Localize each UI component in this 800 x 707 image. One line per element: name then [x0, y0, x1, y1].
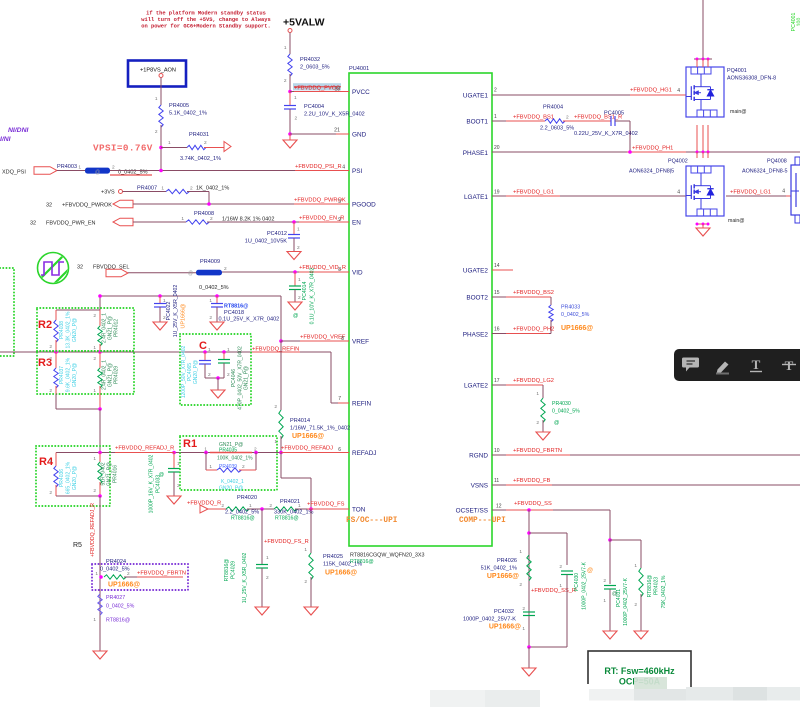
resistor PR4005 — [159, 105, 163, 127]
svg-text:PC4030: PC4030 — [574, 573, 580, 591]
wire to PR4025 — [310, 509, 312, 553]
svg-text:PVCC: PVCC — [352, 89, 370, 96]
svg-text:9.6K_0402_1%: 9.6K_0402_1% — [66, 357, 72, 392]
svg-text:PR4004: PR4004 — [543, 105, 563, 111]
svg-text:+FBVDDQ_BS2: +FBVDDQ_BS2 — [513, 290, 554, 296]
svg-text:PR4036: PR4036 — [59, 469, 65, 487]
svg-text:UGATE1: UGATE1 — [463, 93, 489, 100]
svg-text:4: 4 — [782, 189, 785, 195]
svg-text:1: 1 — [161, 186, 164, 192]
svg-text:LGATE1: LGATE1 — [464, 194, 488, 201]
svg-text:GN20_P@: GN20_P@ — [193, 360, 199, 384]
svg-text:@: @ — [554, 420, 559, 426]
svg-text:1: 1 — [304, 547, 307, 553]
svg-text:1: 1 — [168, 140, 171, 146]
svg-text:+FBVDDQ_REFADJ: +FBVDDQ_REFADJ — [281, 446, 333, 452]
svg-text:RT8816@: RT8816@ — [350, 559, 374, 565]
svg-text:1: 1 — [494, 114, 497, 120]
svg-text:5.1K_0402_1%: 5.1K_0402_1% — [169, 111, 207, 117]
svg-text:2: 2 — [559, 564, 562, 570]
svg-text:1K_0402_1%: 1K_0402_1% — [196, 186, 229, 192]
svg-text:2: 2 — [304, 579, 307, 585]
svg-text:PC4046: PC4046 — [231, 369, 237, 387]
svg-text:1U_0402_10V5K: 1U_0402_10V5K — [245, 239, 288, 245]
svg-text:3: 3 — [338, 199, 341, 205]
group R3 — [37, 351, 134, 394]
wire VREF rail — [281, 340, 349, 342]
ground below PC4031 — [603, 631, 617, 639]
svg-text:PR4016: PR4016 — [113, 465, 119, 483]
svg-text:PC4012: PC4012 — [267, 231, 287, 237]
svg-text:+FBVDDQ_FS: +FBVDDQ_FS — [307, 502, 345, 508]
svg-text:2: 2 — [634, 602, 637, 608]
wire port to PR4003 — [57, 170, 85, 172]
svg-text:1: 1 — [181, 216, 184, 222]
capacitor PC4014 — [294, 272, 296, 286]
svg-text:PR4027: PR4027 — [106, 595, 125, 601]
svg-text:T: T — [785, 358, 794, 373]
watermark blur bottom right — [692, 670, 800, 707]
svg-text:if the platform Modern standby: if the platform Modern standby status — [146, 11, 266, 17]
capacitor PC4004 — [289, 92, 291, 106]
svg-text:UP1666@: UP1666@ — [108, 582, 140, 589]
resistor PR4008 — [186, 220, 209, 224]
svg-text:PR4020: PR4020 — [237, 495, 257, 501]
ground below PC4029 — [255, 607, 269, 615]
transistor PQ4001 — [702, 0, 704, 59]
svg-text:0_0402_5%: 0_0402_5% — [100, 567, 130, 573]
svg-text:2: 2 — [254, 447, 257, 453]
svg-text:1000P_0402_25V7-K: 1000P_0402_25V7-K — [463, 617, 516, 623]
svg-text:1U_25V_K_X5R_0402: 1U_25V_K_X5R_0402 — [173, 285, 179, 338]
svg-text:1: 1 — [536, 391, 539, 397]
svg-text:1: 1 — [95, 571, 98, 577]
wire to PR4009 — [128, 272, 196, 274]
svg-text:2: 2 — [522, 606, 525, 612]
svg-text:R2: R2 — [38, 319, 52, 331]
svg-text:+FBVDDQ_FS_R: +FBVDDQ_FS_R — [264, 539, 309, 545]
svg-text:+FBVDDQ_FBRTN: +FBVDDQ_FBRTN — [137, 571, 186, 577]
wire PR4005 to PSI rail — [160, 125, 162, 171]
svg-text:2: 2 — [519, 582, 522, 588]
resistor PR4035 — [204, 451, 208, 455]
wire vref top rail — [100, 295, 281, 297]
svg-text:+3VS: +3VS — [101, 190, 115, 196]
svg-text:1: 1 — [78, 165, 81, 171]
wire PR4020 to PR4021 — [247, 508, 274, 510]
svg-text:+FBVDDQ_REFADJ_R: +FBVDDQ_REFADJ_R — [115, 446, 174, 452]
resistor PR4016 — [99, 453, 101, 463]
svg-text:1: 1 — [522, 626, 525, 632]
svg-text:1: 1 — [284, 45, 287, 51]
svg-text:PC4032: PC4032 — [494, 609, 514, 615]
svg-text:14: 14 — [494, 263, 500, 269]
svg-text:GN20_P@: GN20_P@ — [72, 363, 78, 387]
svg-text:RT: Fsw=460kHz: RT: Fsw=460kHz — [604, 666, 675, 676]
svg-text:PC4014: PC4014 — [302, 282, 308, 301]
svg-text:GND: GND — [352, 132, 367, 139]
capacitor PC4065 — [203, 350, 207, 354]
svg-text:BOOT1: BOOT1 — [466, 119, 488, 126]
wire BS1_R — [563, 120, 611, 122]
resistor PR4009 selected — [196, 270, 222, 276]
ground below PC4004 — [289, 134, 291, 140]
svg-text:1: 1 — [249, 503, 252, 509]
svg-text:2: 2 — [603, 578, 606, 584]
svg-text:1/16W_71.5K_1%_0402: 1/16W_71.5K_1%_0402 — [290, 426, 350, 432]
svg-text:2: 2 — [221, 503, 224, 509]
svg-text:GN21_P@: GN21_P@ — [244, 366, 250, 390]
svg-text:+FBVDDQ_PH2: +FBVDDQ_PH2 — [513, 327, 554, 333]
svg-text:10: 10 — [494, 448, 500, 454]
svg-text:+FBVDDQ_R: +FBVDDQ_R — [187, 501, 221, 507]
svg-text:6: 6 — [338, 447, 341, 453]
svg-text:2: 2 — [494, 88, 497, 94]
svg-text:PC4029: PC4029 — [231, 561, 237, 579]
svg-text:XDQ_PSI: XDQ_PSI — [2, 170, 26, 176]
svg-text:PR4007: PR4007 — [137, 186, 157, 192]
svg-text:RT8816@: RT8816@ — [275, 516, 299, 522]
svg-text:2: 2 — [49, 344, 52, 350]
IC PU4001 RT8816 body — [349, 73, 492, 546]
wire PQ4002 source to ground — [697, 223, 708, 225]
svg-text:PC4022: PC4022 — [166, 302, 172, 321]
svg-text:PR4030: PR4030 — [552, 401, 571, 407]
svg-text:UP1666@: UP1666@ — [292, 433, 324, 440]
svg-text:RT8816@: RT8816@ — [106, 618, 130, 624]
svg-text:2_0603_5%: 2_0603_5% — [300, 65, 330, 71]
svg-text:@: @ — [293, 313, 298, 319]
svg-text:AONS36308_DFN-8: AONS36308_DFN-8 — [727, 76, 776, 82]
svg-text:1: 1 — [227, 347, 230, 353]
svg-text:1000P_0402_25V7-K: 1000P_0402_25V7-K — [623, 577, 629, 625]
svg-text:0.22U_25V_K_X7R_0402: 0.22U_25V_K_X7R_0402 — [574, 131, 638, 137]
svg-text:2.2U_10V_K_X5R_0402: 2.2U_10V_K_X5R_0402 — [304, 112, 365, 118]
svg-text:1: 1 — [297, 227, 300, 233]
svg-text:2: 2 — [242, 464, 245, 470]
wire R2 top — [56, 309, 100, 311]
svg-text:BOOT2: BOOT2 — [466, 295, 488, 302]
svg-text:2: 2 — [274, 404, 277, 410]
pin PVCC net +FBVDDQ_PVCC — [288, 90, 292, 94]
svg-text:2: 2 — [204, 140, 207, 146]
svg-text:PR4031: PR4031 — [189, 132, 209, 138]
wire PR4032 to PVCC rail — [289, 74, 291, 92]
svg-text:0_0402_5%: 0_0402_5% — [199, 285, 229, 291]
wire R3 bottom — [55, 394, 57, 409]
svg-text:+FBVDDQ_LG1: +FBVDDQ_LG1 — [513, 190, 554, 196]
resistor PR4029 — [99, 352, 101, 368]
pin GND 21 — [288, 132, 292, 136]
svg-text:PC4004: PC4004 — [304, 104, 324, 110]
ground below C — [211, 390, 225, 398]
node VPSI junction — [159, 146, 163, 150]
svg-text:PQ4002: PQ4002 — [668, 159, 688, 165]
svg-text:PSI: PSI — [352, 168, 363, 175]
svg-text:2.2_0603_5%: 2.2_0603_5% — [540, 126, 574, 132]
ground bottom left — [93, 651, 107, 659]
svg-text:NI/DNI: NI/DNI — [8, 127, 29, 134]
svg-text:@: @ — [188, 271, 193, 277]
resistor PR4038 — [55, 310, 57, 320]
svg-text:+FBVDDQ_LG2: +FBVDDQ_LG2 — [513, 378, 554, 384]
svg-text:+FBVDDQ_SS: +FBVDDQ_SS — [514, 501, 552, 507]
svg-text:GN20_P@: GN20_P@ — [219, 486, 243, 492]
svg-text:11: 11 — [494, 478, 499, 484]
svg-text:0_0402_5%: 0_0402_5% — [561, 312, 590, 318]
resistor PR4032 — [288, 54, 292, 76]
wire PR4031 to arrow — [161, 147, 187, 149]
svg-text:+FBVDDQ_SS_R: +FBVDDQ_SS_R — [531, 588, 576, 594]
svg-text:PR4033: PR4033 — [561, 305, 580, 311]
svg-text:UP1666@: UP1666@ — [487, 573, 519, 580]
svg-text:OCSET/SS: OCSET/SS — [456, 508, 488, 515]
svg-text:PR4012: PR4012 — [114, 319, 120, 337]
svg-text:2: 2 — [93, 313, 96, 319]
svg-text:2: 2 — [190, 186, 193, 192]
svg-text:+FBVDDQ_PSI_R: +FBVDDQ_PSI_R — [295, 164, 342, 170]
svg-text:2: 2 — [155, 129, 158, 135]
wire PSI rail — [110, 170, 349, 172]
svg-text:+FBVDDQ_HG1: +FBVDDQ_HG1 — [630, 88, 672, 94]
svg-text:0.1U_10V_K_X7R_0402: 0.1U_10V_K_X7R_0402 — [310, 267, 316, 324]
svg-text:GN20_P@: GN20_P@ — [72, 466, 78, 490]
group R2 — [37, 308, 134, 351]
wire SS network — [527, 508, 531, 512]
svg-text:2: 2 — [227, 372, 230, 378]
capacitor PC4031 — [609, 540, 611, 584]
svg-text:4: 4 — [677, 88, 680, 94]
svg-text:PR4014: PR4014 — [290, 418, 310, 424]
note box RT Fsw — [588, 651, 691, 701]
svg-text:UP1666@: UP1666@ — [489, 624, 521, 631]
wire R4 bottom — [56, 495, 100, 497]
group R4 — [36, 446, 110, 506]
resistor PR4024 — [99, 575, 103, 579]
svg-text:19: 19 — [494, 190, 500, 196]
capacitor PC4033 — [173, 453, 175, 469]
wire C bottom — [205, 377, 224, 379]
svg-text:0_0402_5%: 0_0402_5% — [106, 604, 135, 610]
svg-text:R1: R1 — [183, 438, 197, 450]
svg-text:UGATE2: UGATE2 — [463, 268, 489, 275]
wire +5VALW to PR4032 — [289, 33, 291, 55]
svg-text:PR4023: PR4023 — [654, 577, 660, 595]
svg-text:FS/OC---UPI: FS/OC---UPI — [346, 517, 398, 525]
svg-text:4: 4 — [342, 165, 345, 171]
resistor PR4039 — [205, 453, 207, 471]
resistor PR4003 selected — [85, 168, 110, 174]
wire SS bottom — [529, 646, 567, 648]
svg-text:665_0402_1%: 665_0402_1% — [66, 461, 72, 494]
svg-text:2: 2 — [298, 295, 301, 301]
svg-text:RT8816@: RT8816@ — [647, 575, 653, 598]
svg-text:1: 1 — [208, 347, 211, 353]
svg-text:VPSI=0.76V: VPSI=0.76V — [93, 143, 153, 154]
svg-text:TON: TON — [352, 507, 366, 514]
svg-text:2: 2 — [49, 490, 52, 496]
svg-text:2: 2 — [93, 356, 96, 362]
capacitor PC4022 — [159, 296, 161, 303]
svg-text:1: 1 — [49, 458, 52, 464]
resistor PR4012 — [99, 310, 101, 326]
ground below PC4032 — [522, 668, 536, 676]
svg-text:PHASE2: PHASE2 — [463, 332, 489, 339]
svg-text:PR4024: PR4024 — [106, 559, 126, 565]
svg-text:2: 2 — [269, 503, 272, 509]
svg-text:RGND: RGND — [469, 453, 488, 460]
wire down to REFADJ rail — [99, 409, 101, 453]
ground below PC4018 — [210, 322, 224, 330]
wire PR4007 to PWROK rail — [187, 191, 209, 193]
wire EN rail — [207, 221, 349, 223]
svg-text:UP1666@: UP1666@ — [561, 325, 593, 332]
ground below PQ4002 — [696, 228, 710, 236]
svg-text:1: 1 — [294, 95, 297, 101]
svg-text:UP1666@: UP1666@ — [181, 304, 187, 329]
svg-text:21: 21 — [334, 128, 340, 134]
capacitor PC4012 — [293, 222, 295, 235]
svg-text:1: 1 — [519, 549, 522, 555]
svg-text:17: 17 — [494, 378, 500, 384]
wire vertical to VREF — [280, 296, 282, 341]
svg-text:PR4032: PR4032 — [300, 57, 320, 63]
node rail junctions — [98, 294, 102, 298]
svg-text:PR4009: PR4009 — [200, 259, 220, 265]
svg-text:main@: main@ — [728, 218, 745, 224]
svg-text:+5VALW: +5VALW — [283, 17, 325, 29]
svg-text:1: 1 — [603, 598, 606, 604]
svg-text:2: 2 — [284, 78, 287, 84]
toolbar icon comment — [682, 358, 699, 372]
svg-text:0.1U_25V_K_X7R_0402: 0.1U_25V_K_X7R_0402 — [219, 317, 280, 323]
svg-text:2: 2 — [210, 216, 213, 222]
wire LG1 to PQ4008 — [726, 195, 791, 197]
svg-text:@: @ — [612, 591, 617, 597]
svg-text:2: 2 — [49, 356, 52, 362]
svg-text:100K_0402_1%: 100K_0402_1% — [217, 456, 253, 462]
svg-text:2: 2 — [112, 165, 115, 171]
svg-text:1: 1 — [155, 96, 158, 102]
svg-text:1: 1 — [204, 447, 207, 453]
svg-text:4: 4 — [677, 190, 680, 196]
svg-text:PQ4001: PQ4001 — [727, 68, 747, 74]
icon waveform select — [36, 248, 70, 286]
svg-text:+1P8VS_AON: +1P8VS_AON — [140, 68, 176, 74]
wire to PR4008 — [133, 221, 186, 223]
svg-text:2: 2 — [209, 315, 212, 321]
wire FS_R branch — [261, 509, 263, 564]
svg-text:75K_0402_1%: 75K_0402_1% — [661, 575, 667, 608]
annotation toolbar overlay — [674, 349, 800, 381]
resistor PR4037 — [55, 352, 57, 368]
svg-text:32: 32 — [30, 221, 36, 227]
svg-text:2: 2 — [93, 488, 96, 494]
wire REFIN to pin — [330, 352, 332, 403]
svg-text:REFIN: REFIN — [352, 401, 372, 408]
svg-text:1U_25V_K_X5R_0402: 1U_25V_K_X5R_0402 — [242, 552, 248, 603]
wire REFADJ_R vertical — [99, 496, 101, 651]
svg-text:1: 1 — [634, 563, 637, 569]
group C — [180, 334, 251, 405]
wire PC4005 to PHASE1 — [615, 120, 630, 122]
svg-text:PR4025: PR4025 — [323, 554, 343, 560]
group R1 — [180, 436, 277, 490]
resistor PR4007 — [166, 189, 189, 193]
wire PQ4001 source to PHASE1 — [696, 125, 698, 152]
svg-text:+FBVDDQ_PH1: +FBVDDQ_PH1 — [632, 146, 673, 152]
resistor PR4030 — [542, 385, 544, 398]
svg-text:EN: EN — [352, 220, 361, 227]
group UP1666 FBRTN — [92, 564, 188, 590]
wire to PR4031 — [161, 147, 177, 149]
svg-text:1: 1 — [93, 456, 96, 462]
svg-text:32: 32 — [77, 265, 83, 271]
svg-text:9: 9 — [338, 217, 341, 223]
svg-text:FBVDDQ_PWR_EN: FBVDDQ_PWR_EN — [46, 221, 96, 227]
svg-text:1: 1 — [93, 388, 96, 394]
svg-text:2: 2 — [536, 420, 539, 426]
svg-text:PGOOD: PGOOD — [352, 202, 376, 209]
svg-text:PR4037: PR4037 — [59, 366, 65, 384]
svg-text:2: 2 — [266, 575, 269, 581]
svg-text:+FBVDDQ_VREF: +FBVDDQ_VREF — [300, 335, 346, 341]
svg-text:8: 8 — [338, 267, 341, 273]
power box +1P8VS_AON — [128, 61, 186, 87]
resistor PR4036 — [55, 453, 57, 467]
svg-text:2: 2 — [49, 388, 52, 394]
svg-text:PR4038: PR4038 — [59, 321, 65, 339]
svg-text:PC4005: PC4005 — [604, 111, 624, 117]
svg-text:PR4029: PR4029 — [114, 366, 120, 384]
svg-text:R5: R5 — [73, 542, 82, 549]
svg-text:100: 100 — [797, 18, 800, 27]
svg-text:will turn off the +5VS, change: will turn off the +5VS, change to Always — [141, 17, 270, 23]
svg-text:2: 2 — [297, 245, 300, 251]
svg-text:8: 8 — [341, 336, 344, 342]
svg-text:1: 1 — [266, 555, 269, 561]
svg-text:7: 7 — [338, 396, 341, 402]
svg-text:15: 15 — [494, 290, 500, 296]
svg-text:PHASE1: PHASE1 — [463, 150, 489, 157]
svg-text:LGATE2: LGATE2 — [464, 383, 488, 390]
wire REFADJ rail — [56, 452, 349, 454]
svg-text:GN20_P@: GN20_P@ — [72, 318, 78, 342]
wire VID rail — [222, 271, 349, 273]
svg-text:+FBVDDQ_FBRTN: +FBVDDQ_FBRTN — [513, 448, 562, 454]
svg-text:16: 16 — [494, 327, 500, 333]
svg-text:+FBVDDQ_LG1: +FBVDDQ_LG1 — [730, 190, 771, 196]
svg-text:AON6324_DFN8|5: AON6324_DFN8|5 — [629, 169, 674, 175]
svg-text:K_0402_1: K_0402_1 — [221, 479, 244, 485]
svg-text:20: 20 — [494, 145, 500, 151]
toolbar icon highlighter — [717, 362, 729, 375]
svg-text:1: 1 — [559, 583, 562, 589]
svg-text:3.74K_0402_1%: 3.74K_0402_1% — [180, 156, 221, 162]
svg-text:1: 1 — [298, 503, 301, 509]
svg-text:RT8816CGQW_WQFN20_3X3: RT8816CGQW_WQFN20_3X3 — [350, 553, 425, 559]
svg-text:PC4033: PC4033 — [156, 475, 162, 493]
svg-text:2: 2 — [566, 115, 569, 121]
wire REFADJ jog to FS node — [280, 453, 282, 479]
svg-text:+FBVDDQ_PWROK: +FBVDDQ_PWROK — [62, 203, 112, 209]
svg-text:AON6324_DFN8-5: AON6324_DFN8-5 — [742, 169, 788, 175]
ground below PR4030 — [536, 432, 550, 440]
svg-text:PR4005: PR4005 — [169, 103, 189, 109]
svg-text:C: C — [199, 340, 207, 352]
svg-text:VID: VID — [352, 270, 363, 277]
svg-text:I/NI: I/NI — [0, 136, 11, 143]
